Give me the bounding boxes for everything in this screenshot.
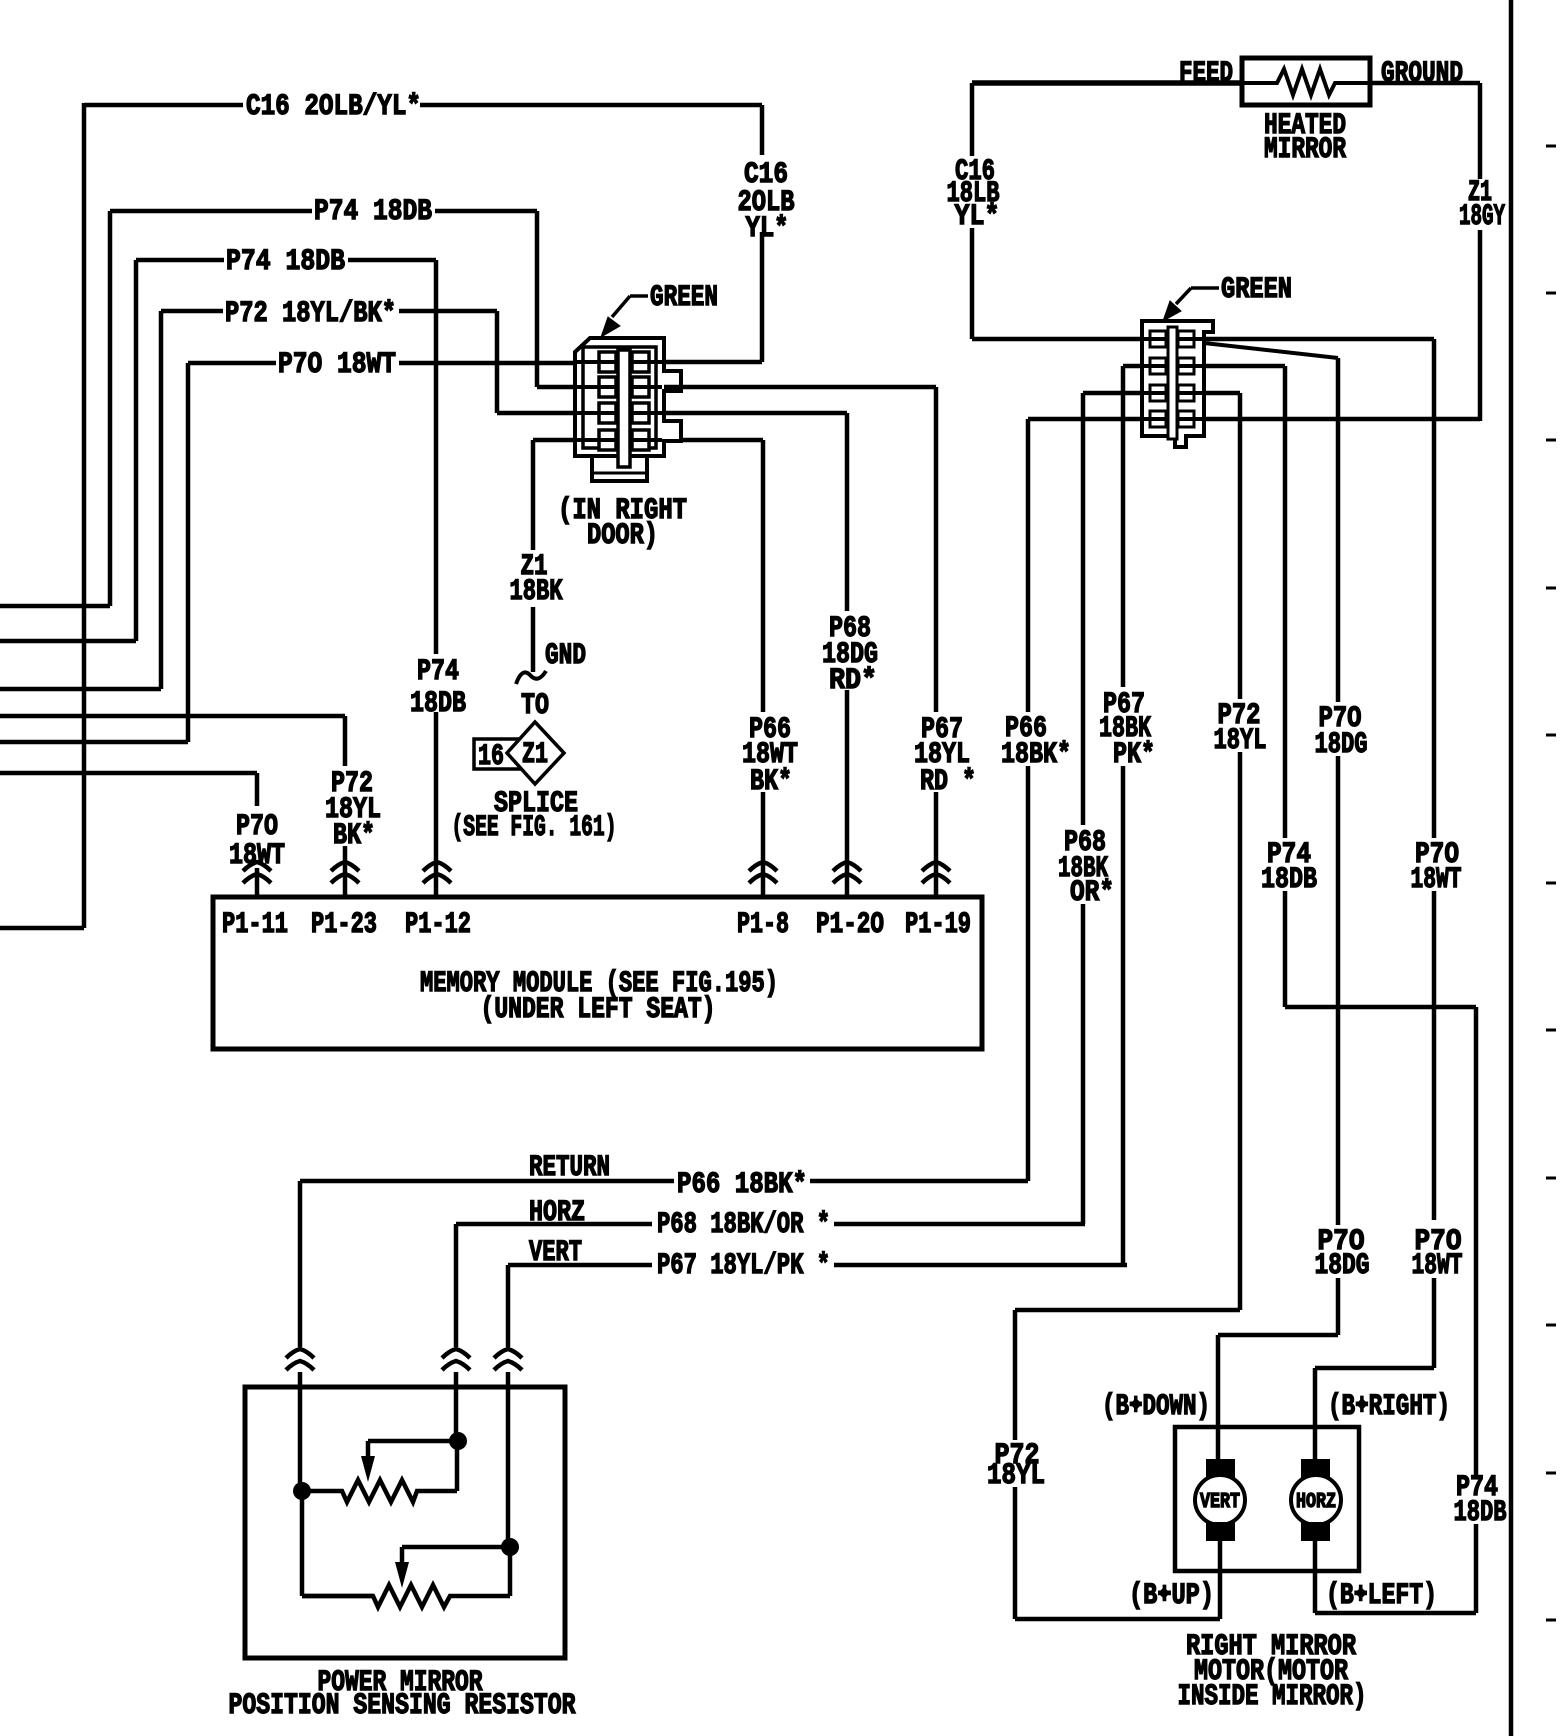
- svg-text:16: 16: [478, 740, 504, 774]
- svg-text:18DB: 18DB: [1261, 863, 1317, 897]
- svg-text:(UNDER LEFT SEAT): (UNDER LEFT SEAT): [481, 993, 716, 1027]
- svg-text:P1-23: P1-23: [311, 908, 377, 942]
- wire P74 18DB first: [0, 211, 577, 606]
- ruler tick y=1473: [1546, 1472, 1556, 1475]
- wire Z1 18BK to ground: [531, 440, 536, 672]
- junction dot vert wiper: [501, 1538, 519, 1556]
- svg-text:DOOR): DOOR): [587, 519, 658, 553]
- heated mirror resistor box: [1242, 58, 1370, 105]
- inline connector chevrons at x=936: [922, 862, 950, 871]
- svg-text:C16 2OLB/YL*: C16 2OLB/YL*: [246, 90, 421, 124]
- chevrons RETURN: [286, 1349, 314, 1358]
- diamond bullet in B+right label: [1356, 1398, 1368, 1410]
- inline connector chevrons at x=847: [833, 862, 861, 871]
- ground squiggle: [516, 671, 546, 684]
- wire rows through connector J2: [1144, 339, 1202, 419]
- connector J2 right tooth row y=419: [1178, 411, 1194, 427]
- wire P72 18YL/BK*: [0, 311, 577, 689]
- svg-text:P1-2O: P1-2O: [816, 908, 884, 942]
- connector J2 right tooth row y=393: [1178, 385, 1194, 401]
- diamond bullet in B+down label: [1130, 1398, 1142, 1410]
- wire P67 door side (row2 to P1-19): [664, 387, 936, 897]
- pot2 resistor zigzag: [302, 1552, 510, 1607]
- wire VERT vertical: [506, 1265, 511, 1540]
- svg-text:18BK*: 18BK*: [1001, 738, 1071, 772]
- wire VERT P67 18YL/PK*: [508, 1263, 1127, 1268]
- svg-text:BK*: BK*: [333, 819, 375, 853]
- svg-text:18DG: 18DG: [1315, 1249, 1370, 1283]
- ruler tick y=883: [1546, 882, 1556, 885]
- wire HORZ P68 18BK/OR*: [456, 1222, 1085, 1227]
- connector J1 bottom tab: [592, 456, 647, 481]
- svg-text:GND: GND: [545, 639, 586, 673]
- wire C16 right vertical into connector row1: [664, 105, 762, 362]
- svg-text:Z1: Z1: [522, 738, 548, 772]
- svg-text:18WT: 18WT: [1411, 863, 1462, 897]
- wire return common down: [302, 1496, 373, 1596]
- inline connector chevrons at x=437: [423, 862, 451, 871]
- svg-text:18DG: 18DG: [1315, 728, 1368, 762]
- connector J1 center bar: [618, 350, 630, 467]
- svg-text:P66 18BK*: P66 18BK*: [677, 1168, 807, 1202]
- svg-text:P1-8: P1-8: [737, 908, 789, 942]
- ruler tick y=146: [1546, 145, 1556, 148]
- svg-text:INSIDE MIRROR): INSIDE MIRROR): [1178, 1680, 1367, 1714]
- wire P74 18DB vertical to motor B+LEFT: [1285, 366, 1476, 1613]
- svg-text:18DB: 18DB: [1454, 1496, 1507, 1530]
- svg-text:YL*: YL*: [746, 212, 789, 246]
- wire row3 P68 / P72: [1083, 391, 1240, 396]
- svg-text:(B+RIGHT): (B+RIGHT): [1328, 1390, 1450, 1424]
- wire P68 18BK OR* vertical: [1081, 393, 1086, 1224]
- svg-text:MIRROR: MIRROR: [1264, 133, 1346, 167]
- svg-text:FEED: FEED: [1179, 57, 1233, 91]
- connector J2 green outer shell: [1142, 321, 1213, 447]
- wire P70 18DG vertical to motor B+DOWN: [1218, 358, 1338, 1462]
- connector J1 left tooth row y=413: [599, 403, 616, 423]
- wire P66 door side (row4 to P1-8): [761, 440, 766, 897]
- svg-text:HORZ: HORZ: [1296, 1490, 1336, 1514]
- diamond bullet in B+up label: [1158, 1587, 1170, 1599]
- motor HORZ brush bottom: [1301, 1522, 1330, 1541]
- ruler tick y=588: [1546, 587, 1556, 590]
- svg-text:P72 18YL/BK*: P72 18YL/BK*: [225, 297, 396, 331]
- motor VERT circle: [1195, 1475, 1245, 1525]
- motor HORZ circle: [1291, 1475, 1341, 1525]
- ruler tick y=1325: [1546, 1324, 1556, 1327]
- diamond bullet in B+left label: [1355, 1587, 1367, 1599]
- connector J1 right tooth row y=362: [632, 352, 649, 372]
- wire RETURN vertical: [298, 1181, 303, 1484]
- wire row1 C16 feed / P70 to right: [972, 337, 1434, 342]
- wire P72 18YL vertical to motor B+UP: [1015, 393, 1240, 1619]
- motor HORZ brush top: [1301, 1459, 1330, 1478]
- wire C16 left vertical run to left edge: [0, 103, 84, 928]
- page right border: [1509, 0, 1514, 1736]
- wire ground side Z1 18GY: [1370, 83, 1480, 421]
- pot1 wiper arm: [368, 1441, 450, 1458]
- svg-text:GROUND: GROUND: [1381, 57, 1463, 91]
- connector J1 left tooth row y=440: [599, 430, 616, 450]
- svg-text:18YL: 18YL: [987, 1459, 1045, 1493]
- connector J2 left tooth row y=366: [1150, 358, 1166, 374]
- connector J2 right tooth row y=366: [1178, 358, 1194, 374]
- connector J1 left tooth row y=362: [599, 352, 616, 372]
- svg-text:P1-19: P1-19: [905, 908, 971, 942]
- ruler tick y=1178: [1546, 1177, 1556, 1180]
- pot2 wiper arm: [402, 1547, 502, 1564]
- splice symbol diamond Z1: [507, 722, 564, 784]
- inline connector chevrons at x=345: [331, 862, 359, 871]
- right mirror motor box: [1175, 1427, 1359, 1571]
- wire feed to heated mirror: [972, 80, 1242, 86]
- svg-text:P74 18DB: P74 18DB: [314, 195, 432, 229]
- ruler tick y=1030: [1546, 1029, 1556, 1032]
- pot1 resistor zigzag: [302, 1448, 457, 1502]
- connector J1 green (in right door) outer shell: [575, 338, 681, 470]
- callout arrow to right connector: [1176, 288, 1219, 304]
- wire RETURN P66 18BK*: [300, 1179, 1028, 1184]
- wire diagonal branch to P70 18DG: [1204, 343, 1338, 358]
- svg-text:VERT: VERT: [1200, 1490, 1240, 1514]
- svg-text:PK*: PK*: [1113, 738, 1155, 772]
- svg-text:18WT: 18WT: [229, 839, 285, 873]
- chevrons VERT: [494, 1349, 522, 1358]
- svg-text:(B+DOWN): (B+DOWN): [1102, 1390, 1210, 1424]
- inline connector chevrons at x=763: [749, 862, 777, 871]
- connector J2 center bar: [1168, 327, 1177, 439]
- svg-text:18YL: 18YL: [1214, 724, 1267, 758]
- ruler tick y=440: [1546, 439, 1556, 442]
- connector J1 right tooth row y=413: [632, 403, 649, 423]
- connector J1 right tooth row y=440: [632, 430, 649, 450]
- callout arrow to left connector: [612, 296, 648, 317]
- junction dot horz wiper: [449, 1432, 467, 1450]
- svg-text:(SEE FIG. 161): (SEE FIG. 161): [452, 811, 617, 845]
- wire P67 18BK PK* vertical: [1121, 366, 1126, 1265]
- wire row2 P67 / P74: [1123, 364, 1285, 369]
- connector J2 right tooth row y=339: [1178, 331, 1194, 347]
- wire C16 18LB YL* vertical: [970, 83, 975, 339]
- ruler tick y=293: [1546, 292, 1556, 295]
- svg-text:18BK: 18BK: [510, 575, 563, 609]
- wire P66 18BK* vertical: [1026, 419, 1031, 1181]
- motor VERT brush top: [1206, 1459, 1235, 1478]
- inline connector chevrons at x=257: [243, 862, 271, 871]
- chevrons HORZ: [442, 1349, 470, 1358]
- junction dot return: [293, 1482, 311, 1500]
- svg-text:P1-11: P1-11: [222, 908, 288, 942]
- svg-text:P67 18YL/PK *: P67 18YL/PK *: [657, 1249, 830, 1283]
- wire to P1-23: [0, 716, 345, 897]
- memory module box: [213, 897, 982, 1049]
- svg-text:OR*: OR*: [1070, 876, 1114, 910]
- wire rows through connector J1: [577, 362, 662, 440]
- svg-text:POSITION SENSING RESISTOR: POSITION SENSING RESISTOR: [229, 1689, 576, 1723]
- svg-text:P1-12: P1-12: [405, 908, 471, 942]
- svg-text:18DB: 18DB: [410, 687, 466, 721]
- svg-text:RD *: RD *: [920, 765, 976, 799]
- connector J1 left tooth row y=387: [599, 377, 616, 397]
- connector J2 left tooth row y=339: [1150, 331, 1166, 347]
- motor VERT brush bottom: [1206, 1522, 1235, 1541]
- power mirror position sensing resistor box: [245, 1387, 565, 1658]
- svg-text:BK*: BK*: [750, 765, 792, 799]
- connector J2 left tooth row y=393: [1150, 385, 1166, 401]
- wire row4 through connector (Z1 gnd to P66): [533, 438, 763, 443]
- ruler tick y=735: [1546, 734, 1556, 737]
- wire P70 18WT: [0, 363, 577, 742]
- ruler tick y=1620: [1546, 1619, 1556, 1622]
- connector J2 left tooth row y=419: [1150, 411, 1166, 427]
- splice symbol box 16: [474, 739, 522, 769]
- svg-text:GREEN: GREEN: [1221, 273, 1292, 307]
- connector J1 inner shell: [583, 347, 656, 448]
- svg-text:YL*: YL*: [955, 200, 1000, 234]
- svg-text:(B+LEFT): (B+LEFT): [1326, 1579, 1437, 1613]
- svg-text:P74: P74: [417, 655, 459, 689]
- svg-text:18GY: 18GY: [1459, 200, 1505, 234]
- wire row4 P66 / Z1 ground: [1028, 417, 1480, 422]
- svg-text:18WT: 18WT: [1412, 1249, 1463, 1283]
- svg-text:RD*: RD*: [829, 664, 877, 698]
- svg-text:(B+UP): (B+UP): [1129, 1579, 1214, 1613]
- svg-text:P74 18DB: P74 18DB: [226, 245, 345, 279]
- svg-text:P7O 18WT: P7O 18WT: [278, 348, 396, 382]
- wire to P1-11: [0, 773, 257, 897]
- wire P70 18WT vertical to motor B+RIGHT: [1315, 339, 1434, 1462]
- svg-text:GREEN: GREEN: [650, 281, 718, 315]
- wire P74 18DB second (to P1-12): [0, 260, 436, 897]
- wire HORZ vertical: [454, 1224, 459, 1434]
- svg-text:P68 18BK/OR *: P68 18BK/OR *: [657, 1208, 830, 1242]
- svg-text:TO: TO: [521, 689, 549, 723]
- wire P68 door side (row3 to P1-20): [664, 413, 847, 897]
- wire C16 20LB/YL* top horizontal: [84, 103, 762, 108]
- heated mirror resistor zigzag: [1242, 69, 1370, 95]
- connector J1 right tooth row y=387: [632, 377, 649, 397]
